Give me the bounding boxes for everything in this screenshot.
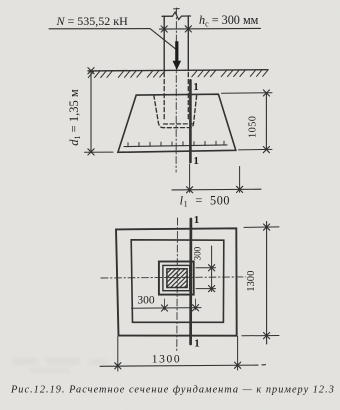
section line 1-1 plan bbox=[189, 219, 192, 344]
l1 tick left bbox=[187, 187, 193, 193]
socket rim outer square bbox=[159, 262, 194, 295]
plan 1300 right extension bottom bbox=[242, 335, 279, 337]
column right edge bbox=[187, 16, 189, 71]
plan 300 right dimension line bbox=[211, 246, 213, 292]
column dashed bottom bbox=[164, 123, 193, 125]
reinforcement mesh line bbox=[124, 145, 227, 147]
plan 300 left extension short 1 bbox=[164, 299, 166, 310]
l1 tick right bbox=[237, 186, 243, 192]
svg-text:300: 300 bbox=[192, 246, 202, 260]
column dashed right below ground bbox=[187, 73, 189, 120]
column cross-section hatched square bbox=[167, 269, 187, 288]
N leader diagonal bbox=[150, 29, 178, 51]
plan 300 left dimension line bbox=[132, 307, 202, 310]
column left edge bbox=[163, 16, 165, 71]
1050 tick bottom bbox=[263, 147, 269, 153]
column break squiggle bbox=[173, 12, 182, 20]
svg-text:1300: 1300 bbox=[152, 354, 181, 366]
hc tick right bbox=[185, 26, 191, 32]
centerline top tick bbox=[174, 8, 180, 10]
plan 300 right tick top bbox=[209, 265, 215, 271]
plan 1300 bottom extension left bbox=[117, 337, 119, 371]
plan 300 right tick bottom bbox=[209, 286, 215, 292]
faint page bleed-through marks bbox=[12, 357, 108, 373]
l1 dimension line bbox=[172, 188, 261, 191]
plan 1300 bottom tick right bbox=[235, 362, 241, 368]
plan vertical centerline bbox=[176, 218, 179, 352]
svg-text:300: 300 bbox=[137, 294, 155, 306]
column top cut line bbox=[162, 15, 173, 17]
ground hatching right bbox=[192, 70, 268, 77]
svg-text:Рис.12.19. Расчетное сечение ф: Рис.12.19. Расчетное сечение фундамента … bbox=[10, 385, 335, 396]
svg-text:1: 1 bbox=[193, 81, 199, 93]
plan 300 left tick 2 bbox=[192, 305, 198, 311]
plan 1300 bottom extension right bbox=[237, 337, 239, 371]
svg-text:1300: 1300 bbox=[246, 271, 257, 292]
d1 bottom extension bbox=[85, 151, 114, 153]
svg-text:N = 535,52 кН: N = 535,52 кН bbox=[56, 14, 129, 28]
reinforcement ticks bbox=[128, 141, 224, 147]
N leader underline bbox=[49, 28, 150, 30]
plan 1300 bottom tick left bbox=[115, 363, 121, 369]
svg-text:1: 1 bbox=[194, 337, 200, 349]
plan 300 left extension short 2 bbox=[195, 299, 197, 310]
plan 1300 right extension top bbox=[244, 226, 279, 229]
plan inner square bbox=[131, 240, 224, 322]
1050 tick top bbox=[263, 90, 269, 96]
section line 1-1 elevation bbox=[189, 80, 192, 162]
d1 tick bottom bbox=[88, 149, 94, 155]
svg-text:1: 1 bbox=[193, 155, 199, 167]
svg-text:hc = 300 мм: hc = 300 мм bbox=[199, 13, 259, 28]
plan 300 right dim top extension bbox=[196, 267, 216, 269]
foundation socket dashed outline bbox=[154, 95, 197, 128]
d1 tick top bbox=[88, 68, 94, 74]
plan 1300 right tick top bbox=[264, 224, 270, 230]
hc tick left bbox=[161, 26, 167, 32]
column centerline bbox=[175, 8, 177, 172]
l1 dimension right extension bbox=[239, 167, 241, 193]
column dashed left below ground bbox=[163, 73, 165, 120]
ground line bbox=[88, 70, 268, 71]
socket rim inner square bbox=[163, 265, 190, 290]
plan 1300 bottom dimension line bbox=[100, 365, 266, 367]
ground hatching left bbox=[88, 71, 165, 78]
svg-text:1050: 1050 bbox=[248, 116, 259, 138]
plan horizontal centerline bbox=[101, 277, 246, 278]
1050 dimension bottom extension bbox=[239, 148, 273, 151]
d1 dimension line bbox=[90, 71, 92, 152]
plan outer square bbox=[116, 228, 237, 335]
plan 300 right dim bottom extension bbox=[196, 288, 216, 290]
plan 1300 right dimension line bbox=[266, 222, 268, 345]
1050 dimension line bbox=[265, 93, 267, 150]
plan 300 left tick 1 bbox=[161, 305, 167, 311]
hc dimension line bbox=[160, 27, 261, 30]
l1 dimension left extension bbox=[189, 164, 191, 192]
load arrow N bbox=[172, 41, 181, 70]
foundation trapezoid outline bbox=[118, 94, 236, 152]
column hatch strokes bbox=[167, 269, 187, 288]
1050 dimension top extension bbox=[222, 92, 273, 95]
svg-text:1: 1 bbox=[194, 214, 200, 226]
plan 1300 right tick bottom bbox=[264, 333, 270, 339]
